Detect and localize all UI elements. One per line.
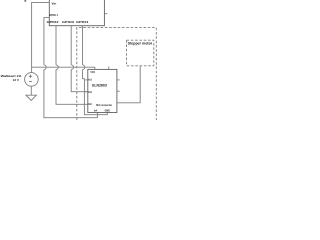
svg-text:12 V: 12 V	[13, 78, 20, 82]
ULN2803 box U1	[88, 69, 117, 112]
ULN right stub row1	[117, 79, 120, 81]
dashed enclosure	[77, 28, 157, 120]
svg-text:In2: In2	[88, 90, 92, 94]
wallwart minus lead	[30, 86, 32, 95]
ULN top stub	[108, 67, 110, 70]
svg-text:ULN2803: ULN2803	[92, 84, 107, 88]
ULN right stub row2	[117, 90, 120, 92]
svg-text:In1: In1	[88, 78, 92, 82]
MCU pin stub right edge	[104, 13, 107, 15]
ground	[26, 95, 36, 100]
svg-text:In4: In4	[94, 109, 97, 113]
svg-text:Vin: Vin	[52, 1, 57, 5]
cropped label fragment top edge	[25, 0, 27, 2]
svg-text:In3: In3	[88, 102, 92, 106]
wallwart plus sign	[29, 75, 32, 82]
svg-text:GPIO3: GPIO3	[62, 20, 74, 24]
svg-text:GND: GND	[105, 109, 111, 113]
svg-text:GPIO 1: GPIO 1	[49, 13, 58, 17]
wire GPIO1 to In4	[44, 18, 49, 65]
wire ULN M4 connector to stepper	[117, 66, 140, 103]
wire GPIO3 to In2	[70, 26, 72, 65]
svg-text:GPIO4: GPIO4	[76, 20, 89, 24]
wire +12V rail to ULN VCC	[32, 67, 95, 69]
wire Vin to wallwart +	[32, 2, 50, 73]
svg-text:VCC: VCC	[90, 70, 95, 74]
svg-text:GPIO2: GPIO2	[47, 20, 59, 24]
ULN In1 stub	[85, 79, 88, 81]
wire GPIO4 to GND rail	[82, 26, 84, 65]
wallwart minus sign	[29, 80, 32, 82]
MCU box U2	[49, 0, 104, 26]
svg-text:Wallwart 2A: Wallwart 2A	[1, 74, 23, 78]
svg-text:Stepper motor: Stepper motor	[128, 42, 153, 46]
ULN In2 stub	[85, 91, 88, 93]
wallwart supply BT1	[25, 73, 39, 87]
stepper motor dashed box M1	[127, 40, 154, 66]
svg-text:M4 connector: M4 connector	[96, 103, 113, 107]
wire GPIO2 to In3	[55, 26, 57, 65]
